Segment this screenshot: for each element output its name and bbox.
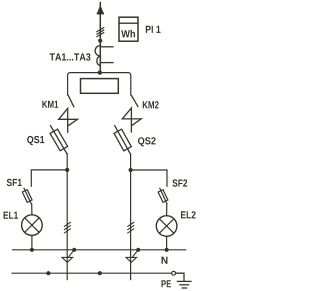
arrow: supply direction arrowhead: [98, 6, 104, 13]
panel rectangle: [81, 79, 119, 94]
ground symbol: [177, 281, 191, 288]
contactor KM2: [122, 96, 141, 132]
label EL2: [181, 211, 196, 218]
node: PE bus dot 2: [98, 271, 102, 275]
label SF1: [7, 179, 22, 186]
PE link right: blade and arrowhead: [126, 250, 138, 263]
current transformer TA1...TA3: [95, 46, 113, 66]
node: meter tap junction dot: [98, 39, 102, 43]
fuse SF1: [22, 188, 32, 204]
PE link left: blade and arrowhead: [62, 250, 74, 263]
wire: panel top bus with side drops: [68, 73, 131, 96]
lamp EL2: [156, 204, 177, 250]
fuse-disconnector QS1: [50, 126, 68, 155]
PE bus: [12, 272, 172, 274]
node: left branch junction dot: [65, 168, 69, 172]
label SF2: [172, 179, 187, 186]
node: EL1 on N bus: [30, 248, 34, 252]
label N: [161, 257, 167, 264]
fuse-disconnector QS2: [114, 126, 131, 154]
label KM2: [143, 101, 159, 108]
terminal: open circle at PE bus end: [172, 271, 176, 275]
wire: right branch vertical: [130, 154, 132, 280]
meter PI1 (Wh) box: [119, 17, 138, 41]
wire: to earth electrode: [176, 273, 185, 281]
node: PE bus dot 1: [46, 271, 50, 275]
label KM1: [42, 101, 58, 108]
fuse SF2: [158, 188, 168, 204]
contactor KM1: [59, 95, 78, 132]
label QS2: [138, 137, 156, 146]
node: right branch junction dot: [129, 168, 133, 172]
N bus: [13, 249, 186, 251]
wire: left lamp feeder horizontal: [31, 170, 67, 186]
wire: right lamp feeder horizontal: [131, 170, 167, 186]
label PE: [162, 280, 171, 287]
node: right PE link on N bus: [136, 248, 140, 252]
lamp EL1: [22, 204, 43, 250]
label PI1: [146, 26, 161, 33]
node: bus junction dot: [98, 70, 102, 74]
wire: incoming supply main line: [99, 3, 101, 73]
node: EL2 on N bus: [165, 248, 169, 252]
hash marks: incoming line ticks: [97, 28, 104, 32]
hash marks: right branch ticks: [128, 222, 134, 233]
label QS1: [27, 136, 44, 145]
label TA1...TA3: [50, 53, 91, 60]
hash marks: left branch ticks: [64, 222, 70, 233]
label EL1: [4, 212, 18, 219]
arrow crossbar: [97, 13, 104, 15]
node: left PE link on N bus: [72, 248, 76, 252]
wire: left branch vertical: [66, 154, 68, 280]
